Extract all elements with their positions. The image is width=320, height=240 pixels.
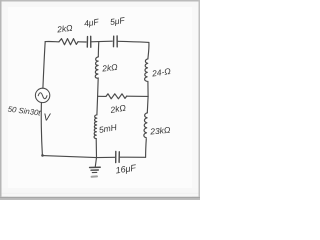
svg-text:2kΩ: 2kΩ	[56, 23, 74, 35]
svg-text:23kΩ: 23kΩ	[149, 125, 171, 137]
svg-text:2kΩ: 2kΩ	[101, 62, 119, 74]
svg-text:4μF: 4μF	[83, 16, 100, 28]
svg-text:5μF: 5μF	[109, 15, 126, 27]
